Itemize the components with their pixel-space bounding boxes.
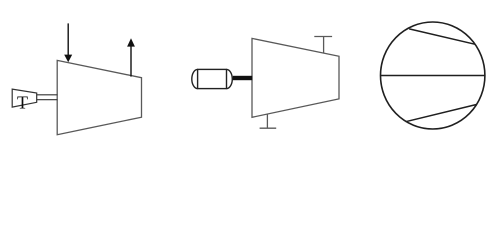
arrowhead (inlet, pointing down onto K1) (64, 55, 72, 63)
compressor K1 (left trapezoid body) (57, 60, 141, 134)
wire (inlet arrow shaft into K1 top) (67, 23, 69, 55)
shaft (thick black bar between motor and K2) (233, 76, 253, 80)
turbine driver T (small trapezoid) (12, 89, 37, 107)
compressor K2 (middle trapezoid body) (252, 38, 339, 117)
nozzle cap (top bar) (314, 36, 332, 38)
svg-text:T: T (17, 92, 28, 112)
wire (outlet arrow shaft from K1 top edge) (130, 46, 132, 77)
shaft (double line between driver T and K1) (37, 94, 58, 96)
lower chord (406, 104, 477, 121)
nozzle cap (bottom bar) (260, 127, 277, 129)
nozzle (top outlet stem of K2) (323, 37, 325, 54)
motor end cap (right arc) (227, 69, 233, 88)
arrowhead (outlet, pointing up from K1) (127, 38, 135, 46)
motor end cap (left arc) (192, 69, 198, 88)
upper chord (409, 29, 475, 44)
rotary machine body (circle) (381, 22, 485, 129)
nozzle (bottom inlet stem of K2) (266, 114, 268, 128)
motor M (capsule body) (198, 69, 227, 88)
centerline (horizontal diameter) (381, 75, 485, 77)
